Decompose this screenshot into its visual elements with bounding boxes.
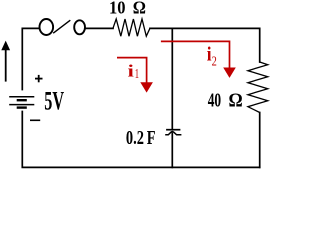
svg-text:Ω: Ω (229, 90, 243, 112)
svg-text:F: F (147, 127, 156, 149)
svg-text:5V: 5V (44, 87, 64, 116)
svg-text:2: 2 (212, 54, 217, 69)
svg-text:10: 10 (109, 0, 126, 18)
svg-text:0.2: 0.2 (126, 127, 144, 149)
svg-text:40: 40 (208, 91, 221, 112)
svg-text:Ω: Ω (133, 0, 146, 18)
svg-text:i: i (128, 61, 135, 80)
svg-text:1: 1 (135, 66, 139, 81)
